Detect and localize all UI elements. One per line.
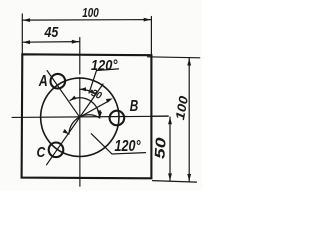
svg-text:120°: 120° [91,58,118,74]
svg-text:A: A [38,73,48,90]
svg-text:B: B [130,98,139,115]
dimension line 100 top [22,19,151,22]
extension line right of top 100 dim [150,17,152,56]
arrow bottom of 50 [168,173,172,180]
dimension arc 120 deg bottom from C-line to B-line [69,115,100,134]
leader of top 120 label [89,69,119,93]
bolt circle [41,78,119,156]
arrow top of 50 [168,117,172,124]
radial centerline through hole A [47,71,80,118]
svg-text:50: 50 [152,136,170,159]
extension line at center level for 50 dim [153,115,169,117]
svg-text:120°: 120° [115,138,141,155]
vertical centerline [79,38,81,187]
arrow left end of 100 top [23,18,30,22]
radial arrow to bolt circle at 30 deg [81,101,109,117]
leader of bottom 120 label [91,134,145,154]
extension line left of top 100 dim [21,14,23,54]
bottom extension line of right dims [153,181,197,183]
dimension line 45 [22,41,79,44]
dimension arc 120 deg top from A-line to B-line [70,98,99,117]
arrow right end of 45 [72,40,79,44]
top extension line of right 100 dim [148,57,200,58]
dimension line 50 [169,117,171,181]
hole A [51,74,66,89]
arrow bottom of right 100 [187,174,191,181]
dimension line 100 right [188,58,190,181]
radial centerline through hole C extended past center [47,84,103,165]
horizontal centerline [12,116,168,117]
hole B [110,111,125,126]
arrow left end of 45 [23,40,30,44]
hole C [49,143,64,158]
svg-text:C: C [37,144,47,161]
arrow right end of 100 top [144,18,151,22]
svg-text:100: 100 [82,5,99,20]
svg-text:45: 45 [44,24,59,41]
arrow top of right 100 [187,58,191,65]
plate outline [22,54,152,178]
dimension arc 30 deg between vertical centerline and C-extension [80,89,96,94]
